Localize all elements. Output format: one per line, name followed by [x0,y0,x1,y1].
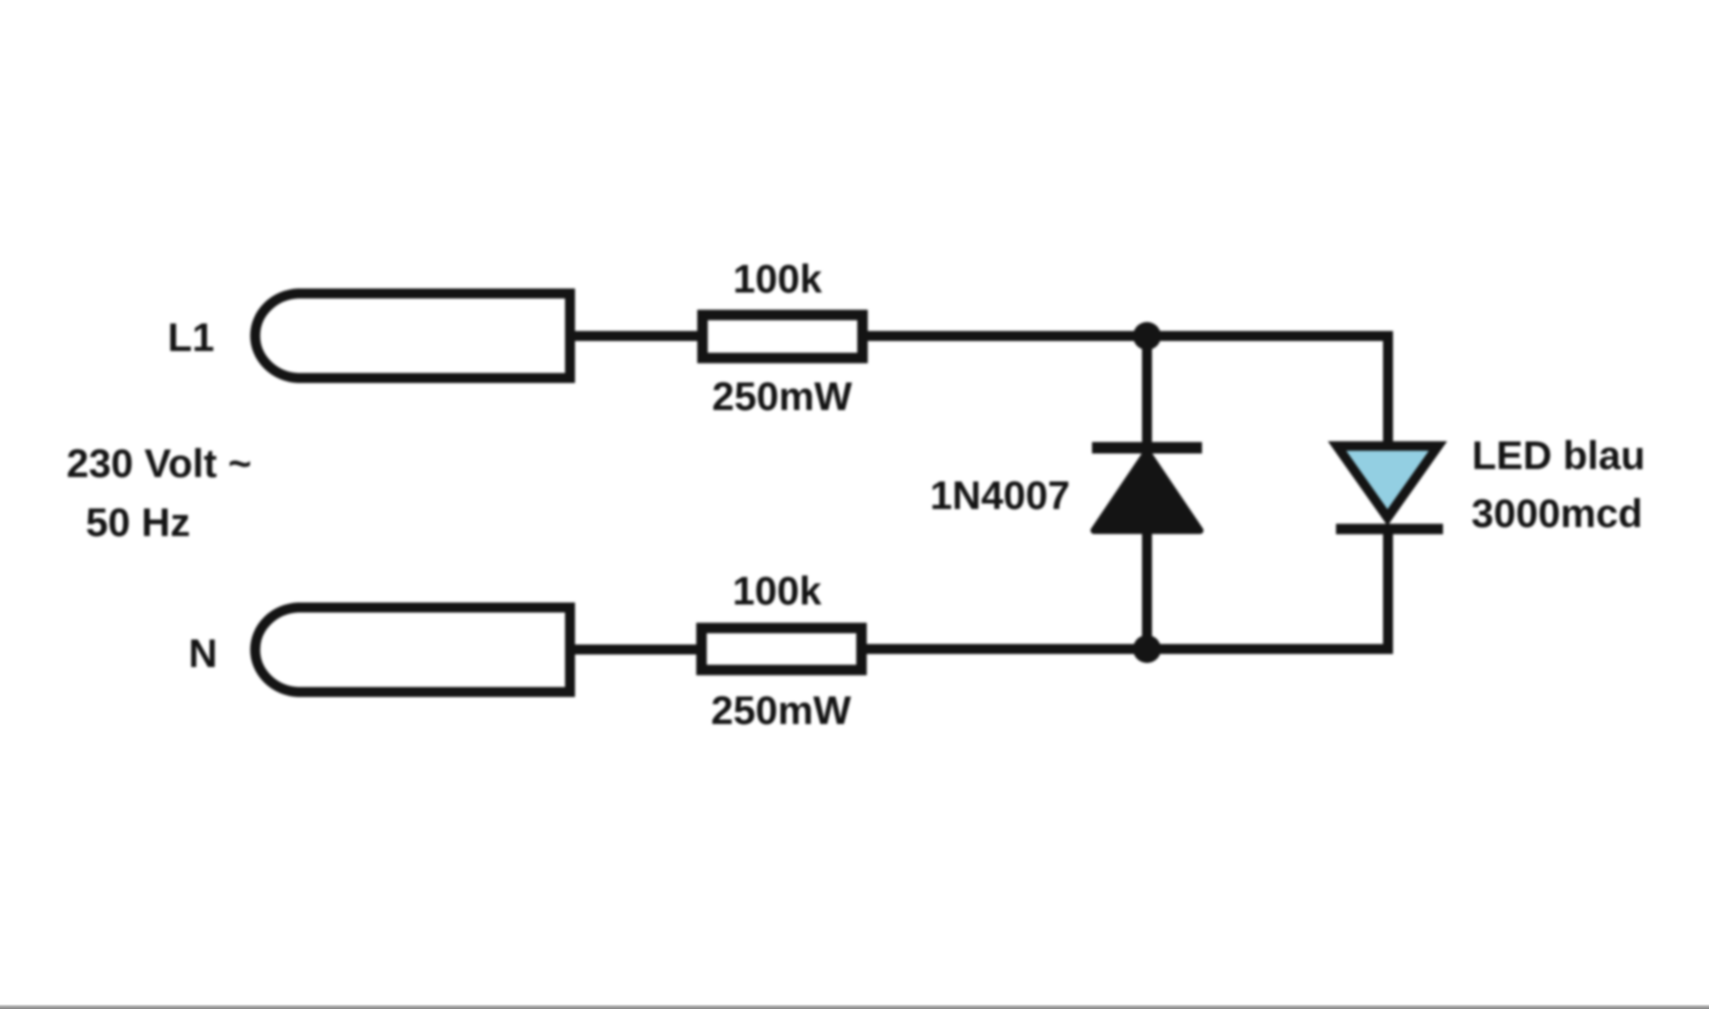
LED cathode bar [1336,524,1443,535]
wire D1 to bottom junction [1142,530,1152,649]
resistor R2 [702,628,862,670]
svg-text:230 Volt ~: 230 Volt ~ [67,442,252,486]
node junction top [1133,322,1161,350]
diode D1 1N4007 triangle [1094,452,1200,531]
svg-text:100k: 100k [733,258,823,302]
svg-text:N: N [189,632,218,676]
wire N to R2 [570,645,703,655]
wire L1 to R1 [570,331,704,341]
bottom edge video letterbox bar [0,1004,1709,1009]
connector N [255,608,570,693]
svg-text:L1: L1 [168,316,215,360]
svg-text:1N4007: 1N4007 [930,474,1070,518]
LED triangle [1337,446,1438,518]
node junction bottom [1133,635,1161,663]
wire R1 to top-right corner and down to LED [862,336,1388,446]
diode D1 cathode bar [1092,442,1202,454]
svg-text:50 Hz: 50 Hz [86,501,191,545]
resistor R1 [703,315,863,358]
wire R2 to bottom-right corner and up to LED [861,529,1388,649]
svg-text:3000mcd: 3000mcd [1471,492,1642,536]
wire top junction down to D1 [1142,336,1152,448]
svg-text:100k: 100k [733,570,823,614]
connector L1 [255,294,570,379]
svg-text:250mW: 250mW [711,689,851,733]
svg-text:250mW: 250mW [712,375,852,419]
svg-text:LED blau: LED blau [1472,434,1645,478]
